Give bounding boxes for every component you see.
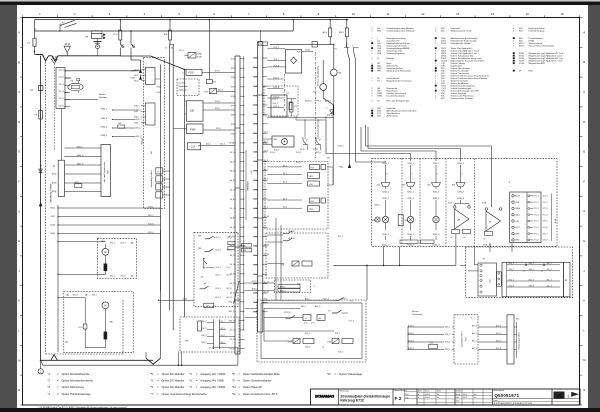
svg-text:X7Q: X7Q [230,133,234,135]
mid connector box [497,272,502,286]
svg-text:342_1: 342_1 [206,144,211,146]
svg-text:AF D: AF D [323,31,328,34]
large dashed enclosure lamps [372,158,557,246]
legend row W76 [371,67,373,69]
svg-text:5WB: 5WB [377,95,382,97]
svg-text:161: 161 [201,277,204,279]
svg-text:Steuerung Heben: Steuerung Heben [518,332,521,350]
pin K204 [65,191,102,193]
svg-text:1S-7Q B: 1S-7Q B [284,312,291,314]
amplifier cluster 24 [485,208,487,210]
pin K313 [141,122,145,124]
svg-text:D1: D1 [335,49,337,51]
svg-text:Option Hubhebelanzeige: Option Hubhebelanzeige [62,392,92,396]
svg-text:K13_3: K13_3 [496,340,501,342]
svg-text:34_2: 34_2 [221,321,225,323]
svg-text:X4_1: X4_1 [230,246,234,248]
column Q internal dividers [258,94,263,96]
svg-text:X31_2: X31_2 [335,333,340,335]
pin row 34_5 [240,189,245,191]
svg-text:4.4.01: 4.4.01 [463,394,467,396]
svg-text:X61_1: X61_1 [110,242,115,244]
dashed box around K10 [264,86,298,116]
svg-text:P1_3: P1_3 [230,348,234,350]
lamp K54 [330,69,337,76]
switch 1S19 [283,231,292,234]
pin row 34_7 [240,207,245,209]
svg-text:X236_3: X236_3 [433,198,440,200]
pin row 34_2 [240,161,245,163]
svg-text:X230_2: X230_2 [433,163,440,165]
pin row K5Q [253,66,258,68]
wire X202 [58,216,161,218]
svg-text:B150: B150 [519,45,525,47]
indicator lamp [382,216,388,222]
svg-text:X64_1: X64_1 [509,263,514,265]
svg-text:K67: K67 [311,167,314,169]
resistor R2 [290,102,294,112]
svg-text:SOUT: SOUT [515,227,520,229]
svg-text:X71_4: X71_4 [534,214,539,216]
fuse F1 [33,38,36,46]
svg-text:+9: +9 [305,318,307,320]
svg-text:21YB: 21YB [300,149,305,151]
svg-text:Fahrzeug ET1C: Fahrzeug ET1C [340,399,365,403]
pin X11_5 [65,99,70,101]
svg-text:Option DC-Wandler: Option DC-Wandler [162,372,185,376]
svg-text:X71_6: X71_6 [543,227,548,229]
wire feed relay stack right [332,105,334,185]
svg-text:*12: *12 [327,372,331,376]
svg-text:F: F [583,179,585,183]
fuse 1F P [119,30,122,40]
svg-text:X26_1: X26_1 [148,206,153,208]
legend row A13 [371,110,373,112]
svg-text:X120: X120 [216,128,220,130]
legend row 1S6 [371,47,373,49]
harness merge W symbol [36,55,89,62]
svg-text:K82: K82 [118,123,121,125]
pin K120 [141,69,145,71]
svg-text:M: M [104,305,106,308]
svg-text:Ausgang 24V / 85W: Ausgang 24V / 85W [200,379,224,383]
interface connector column Q [257,42,259,333]
pin row X3Q_1 [240,301,245,303]
svg-text:X26_3: X26_3 [148,223,153,225]
resistor 5R1 filled [104,332,108,340]
pin row K54 [253,104,258,106]
svg-text:*5: *5 [461,174,463,176]
pin row X4_4 [240,273,245,275]
connector Steuerung Heben [507,315,514,364]
terminal boxes X13 [228,241,235,244]
vertical wire 173 [172,45,174,330]
ignition switch S1 [59,26,61,31]
pin row X27 [253,283,258,285]
svg-text:(A): (A) [85,294,88,297]
svg-text:X71_8: X71_8 [543,240,548,242]
svg-text:1F P: 1F P [113,34,118,36]
svg-text:Interface: Interface [247,181,250,191]
svg-text:K310: K310 [134,106,138,108]
connector X70 [206,80,212,84]
svg-text:34_13: 34_13 [227,288,232,290]
svg-text:D5: D5 [350,301,352,303]
svg-text:C: C [18,90,20,94]
connector X11 strip [56,68,65,109]
title block print stamp icon [554,392,565,399]
label X38_1 [325,120,327,154]
diode D1 [39,169,43,173]
svg-text:K29: K29 [254,218,257,220]
svg-text:X11_6: X11_6 [59,105,64,107]
pin K405 [65,147,102,149]
svg-text:X75: X75 [231,87,234,89]
svg-text:K5Q: K5Q [253,67,257,69]
svg-text:X66_3: X66_3 [529,279,534,281]
pin row K55 [253,113,258,115]
pin row 34_1 [240,151,245,153]
wires from column Q to relay stacks [267,166,302,168]
svg-text:X48_3: X48_3 [445,334,450,336]
wires inside switch box [264,340,293,342]
svg-text:K53: K53 [254,95,257,97]
dashed controller boundary left [45,62,47,354]
svg-text:Benennung: Benennung [340,390,348,392]
svg-text:SHLD: SHLD [515,240,520,242]
svg-text:34_5: 34_5 [283,198,287,200]
svg-text:Option Hakenrib: Option Hakenrib [243,385,263,389]
svg-text:34_2: 34_2 [283,173,287,175]
pin X30_3 [207,329,214,331]
pin X71_6 [528,226,530,228]
legend row Y45 [435,90,437,92]
ignition switch contact b [130,31,132,44]
svg-text:X48_2: X48_2 [445,327,450,329]
connector block A06 [510,192,541,243]
svg-text:X50_4: X50_4 [270,152,275,154]
svg-text:X236_2: X236_2 [407,234,414,236]
svg-text:B47_1: B47_1 [472,325,477,327]
pin row X74 [240,77,245,79]
svg-text:G: G [18,209,20,213]
svg-text:Verbindersder Haubel: Verbindersder Haubel [451,42,472,45]
svg-text:K312: K312 [134,117,138,119]
column Q top box [258,42,268,45]
pin row X64 1 [507,264,561,266]
arrow on bus [39,203,42,207]
pin row X75 [240,86,245,88]
pin row X25 [253,264,258,266]
svg-text:1S-19 B: 1S-19 B [288,231,295,233]
pin X11_6 [65,106,70,108]
pin row X32_1 [240,320,245,322]
harness tent merge bottom left [51,355,57,361]
svg-text:X293_6: X293_6 [305,101,312,103]
valve 2Y6 [292,261,299,266]
svg-text:+10: +10 [318,318,321,320]
pin row X4_2 [240,254,245,256]
svg-text:F140: F140 [190,128,196,131]
dashed boundary inner [53,64,55,150]
svg-text:B47_2: B47_2 [472,333,477,335]
svg-text:K21: K21 [254,142,257,144]
svg-text:K2Q: K2Q [253,133,257,135]
svg-text:*3: *3 [386,174,388,176]
svg-text:K24: K24 [254,171,257,173]
svg-text:C: C [583,90,585,94]
enclosure divider 3 [445,158,447,246]
svg-text:M4: M4 [339,73,342,75]
svg-text:34_4: 34_4 [221,335,225,337]
svg-text:4.5.1: 4.5.1 [430,343,434,345]
svg-text:X236_2: X236_2 [407,198,414,200]
svg-text:34_3: 34_3 [283,182,287,184]
switch 1S-7Q [285,316,295,319]
svg-text:X71_4: X71_4 [349,321,354,323]
svg-text:X26_4: X26_4 [148,232,153,234]
svg-text:X69_3: X69_3 [73,295,78,297]
connector fork K61 [432,183,441,187]
svg-text:N: N [583,388,585,392]
wire to lamp K54 [333,44,335,69]
socket pin SOUT [512,226,514,228]
svg-text:X31_5: X31_5 [136,136,141,138]
svg-text:X71_4: X71_4 [543,214,548,216]
arrow terminal 64Q [348,164,351,167]
svg-text:K51_4: K51_4 [216,288,221,290]
vertical wire 167 [169,45,171,310]
svg-text:K52: K52 [254,86,257,88]
svg-text:12: 12 [421,12,425,16]
svg-text:Service-: Service- [412,310,419,313]
ground reference circle 1 [40,360,42,368]
svg-text:X10_1: X10_1 [296,162,301,164]
svg-text:Hydraulik: Hydraulik [179,85,189,88]
svg-text:X300_4: X300_4 [101,126,108,128]
pin K406 [65,156,102,158]
svg-text:64_2: 64_2 [227,267,231,269]
svg-text:X11_5: X11_5 [59,98,64,100]
row tick marks and letters right [580,17,582,19]
svg-text:Batterie: Batterie [387,57,395,60]
svg-text:X16: X16 [243,250,246,252]
dashed enclosure A9 [466,247,573,298]
svg-text:X27: X27 [254,283,257,285]
component C13 [188,143,201,150]
svg-text:D: D [583,120,585,124]
svg-text:Option Sicherheitshaube: Option Sicherheitshaube [243,379,272,383]
svg-text:X49_1: X49_1 [301,306,306,308]
pin X71_7 [528,233,530,235]
node X103 [170,44,173,46]
svg-text:X72: X72 [231,59,234,61]
svg-text:X2Q2: X2Q2 [50,216,55,218]
legend row B15 [371,115,373,117]
pin row P1_3 [240,348,245,350]
svg-text:K10_2: K10_2 [273,99,278,101]
title block approval grid [455,391,493,393]
svg-text:34_6: 34_6 [283,207,287,209]
svg-text:X71_5: X71_5 [543,221,548,223]
svg-text:(D): (D) [30,90,33,92]
svg-text:Option Gebeheizer bzw. ZH 3: Option Gebeheizer bzw. ZH 3 [243,392,278,396]
module 7505 with meter [272,136,294,147]
pin K310 [141,105,145,107]
socket pin SHLD [512,239,514,241]
svg-text:CANH: CANH [515,207,521,210]
wire to lamp 9e0 [322,60,324,84]
svg-text:X4_3: X4_3 [230,264,234,266]
valve 2Y50 [293,339,300,344]
dashed enclosure Steuerung Heben [144,58,165,209]
title block revision grid [417,391,455,393]
svg-text:X30_3: X30_3 [305,347,310,349]
column tick marks and numbers top [22,15,24,17]
svg-text:X79: X79 [231,124,234,126]
svg-text:Option Videoanlage: Option Videoanlage [339,372,363,376]
svg-text:X50_4: X50_4 [274,150,279,152]
pin row X28 [253,292,258,294]
svg-text:Option Sitzheizung: Option Sitzheizung [62,385,85,389]
box 160 [187,101,204,121]
svg-text:(A): (A) [66,294,69,297]
wires X11 to right [65,70,141,72]
svg-text:X70: X70 [213,82,216,84]
svg-text:A34: A34 [452,183,455,186]
legend row 2S103 [435,60,437,62]
pin X71_3 [528,208,530,210]
svg-text:X69_1: X69_1 [92,295,97,297]
amplifier cluster A6 [454,206,456,208]
svg-text:X6L_2: X6L_2 [547,269,552,271]
socket pin v1 [480,264,482,266]
legend row K61 [435,67,437,69]
pin row X21 [253,226,258,228]
svg-text:H92: H92 [405,220,408,222]
svg-text:X6L_4: X6L_4 [547,285,552,287]
svg-text:1S1Q: 1S1Q [342,298,347,300]
svg-text:X10_1: X10_1 [179,50,184,52]
legend row ST34 [513,62,515,64]
terminal D [38,86,43,91]
svg-text:X32_2: X32_2 [338,352,343,354]
svg-text:Drehstromgenerator (Vibrator): Drehstromgenerator (Vibrator) [387,29,415,32]
svg-text:X29: X29 [254,302,257,304]
svg-text:X61_2: X61_2 [121,276,126,278]
label X003a [302,50,313,52]
row B43_2 with switch [261,299,334,301]
fuse 1F6 [169,30,172,40]
svg-text:34_13: 34_13 [264,244,269,246]
wires X312 [155,78,160,80]
svg-text:34_6: 34_6 [230,199,234,201]
pin row X24 [253,254,258,256]
svg-text:34_9: 34_9 [264,207,268,209]
svg-text:X23: X23 [254,246,257,248]
socket pin PWR [512,232,514,234]
svg-text:X61_2: X61_2 [110,276,115,278]
svg-text:ZG: ZG [556,393,562,398]
wire from column P bottom to switch box [245,308,258,310]
svg-text:1S-73 B: 1S-73 B [288,238,295,240]
wires to X28 box [245,282,275,284]
service box Inb und Servicezeile [101,145,111,197]
bus wire 15 [35,30,294,32]
wire down to X38 [333,105,335,115]
svg-text:K61: K61 [402,184,405,186]
pin row X31_1 [240,310,245,312]
svg-text:X236_4: X236_4 [457,198,464,200]
svg-text:X11_3: X11_3 [59,84,64,86]
wire X41B [159,299,195,301]
svg-text:X31_4: X31_4 [136,128,141,130]
svg-text:X71_3: X71_3 [534,208,539,210]
svg-text:X11_1: X11_1 [59,69,64,71]
dashed box X28 [275,280,311,293]
wires B47 rows [452,326,454,328]
svg-text:X7B_2: X7B_2 [252,281,257,283]
svg-text:X236_1: X236_1 [382,198,389,200]
enclosure divider 2 [419,158,421,246]
interface connector column P [234,56,236,354]
svg-text:X4_5: X4_5 [230,283,234,285]
legend row 2S25 [435,47,437,49]
wires into motor box 2 [58,297,85,299]
fuse F1/0 box [186,69,202,75]
vertical service wires [407,327,409,350]
pin row X7QB [240,142,245,144]
svg-text:B47_4: B47_4 [472,348,477,350]
svg-text:2Y04: 2Y04 [204,92,208,94]
pin row X72 [240,58,245,60]
svg-text:X71_1: X71_1 [543,196,548,198]
pin row K2Q [253,132,258,134]
svg-text:X312: X312 [157,86,161,88]
svg-text:K61: K61 [377,184,380,186]
svg-text:K17: K17 [254,58,257,60]
svg-text:C13: C13 [191,146,196,149]
svg-text:X4_6: X4_6 [230,292,234,294]
svg-text:K51_1: K51_1 [216,237,221,239]
pin row 34_3 [240,170,245,172]
dashed motor box 2W [97,238,136,278]
svg-text:10: 10 [352,12,356,16]
svg-text:Option Seilwindenschalter Mitt: Option Seilwindenschalter Mitte [243,372,281,376]
legend row ST40 [513,52,515,54]
wires above contacts [296,119,326,121]
svg-text:K406_2: K406_2 [77,155,84,157]
svg-text:X71_5: X71_5 [534,221,539,223]
svg-text:2b1: 2b1 [516,319,519,321]
svg-text:X71_6: X71_6 [534,227,539,229]
svg-text:K54_2: K54_2 [274,77,279,79]
svg-text:K51_2: K51_2 [216,297,221,299]
svg-text:K60_1: K60_1 [215,108,220,110]
svg-text:X50_2: X50_2 [296,152,301,154]
socket pin S IN [512,220,514,222]
fuse F140 box [187,124,204,134]
bottom heavy bus [41,359,154,361]
pin row X4_3 [240,264,245,266]
pin row X78 [240,114,245,116]
svg-text:34_4: 34_4 [230,180,234,182]
svg-text:X10_2: X10_2 [273,103,278,105]
svg-text:X151_2: X151_2 [323,299,329,301]
svg-text:2P0: 2P0 [185,341,188,343]
svg-text:X230_2: X230_2 [457,163,464,165]
svg-text:X73: X73 [231,68,234,70]
